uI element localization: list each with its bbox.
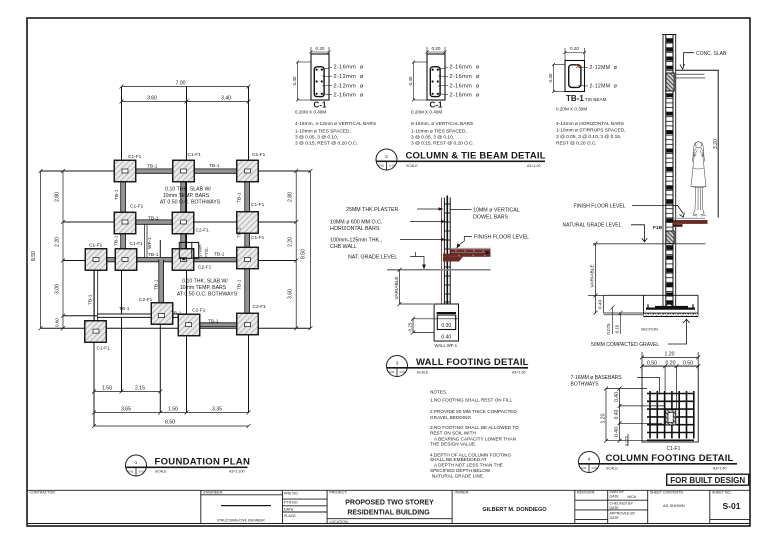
svg-text:S-01: S-01: [378, 164, 384, 168]
svg-text:S-01: S-01: [723, 501, 741, 511]
svg-text:SECTION: SECTION: [641, 328, 658, 332]
svg-text:COLUMN FOOTING DETAIL: COLUMN FOOTING DETAIL: [606, 453, 734, 464]
svg-text:TB-1: TB-1: [119, 306, 130, 312]
svg-text:BOTHWAYS: BOTHWAYS: [571, 382, 600, 388]
svg-text:4-12mm ø HORIZONTAL BARS: 4-12mm ø HORIZONTAL BARS: [556, 121, 624, 127]
svg-text:TB-1: TB-1: [114, 235, 120, 246]
hatched junction blocks: [666, 73, 674, 91]
svg-text:TB-1: TB-1: [214, 252, 225, 258]
svg-text:1.50: 1.50: [102, 386, 112, 392]
svg-text:1: 1: [135, 460, 138, 465]
svg-text:4: 4: [588, 457, 591, 462]
svg-text:0.40: 0.40: [614, 392, 620, 402]
svg-text:C1-F1: C1-F1: [252, 152, 266, 158]
left leader texts: [330, 207, 398, 261]
column ladder: [662, 35, 676, 307]
svg-text:2-12MM ø: 2-12MM ø: [590, 65, 618, 71]
svg-text:2-16mm ø: 2-16mm ø: [450, 74, 480, 80]
svg-text:DATE: DATE: [284, 507, 294, 511]
svg-text:2-16mm ø: 2-16mm ø: [450, 92, 480, 98]
footing section: [604, 295, 699, 316]
svg-text:CHB WALL: CHB WALL: [330, 244, 357, 250]
svg-text:2-16mm ø: 2-16mm ø: [450, 83, 480, 89]
svg-text:FINISH FLOOR LEVEL: FINISH FLOOR LEVEL: [474, 235, 529, 241]
svg-text:8.50: 8.50: [301, 249, 307, 259]
svg-text:SCALE: SCALE: [155, 470, 167, 474]
svg-text:2.20: 2.20: [55, 237, 61, 247]
svg-text:0.075: 0.075: [606, 323, 611, 335]
svg-text:DOWEL BARS: DOWEL BARS: [473, 215, 509, 221]
svg-text:2-12MM ø: 2-12MM ø: [590, 84, 618, 90]
top dims: [640, 352, 700, 368]
svg-text:S-01: S-01: [389, 164, 395, 168]
dwg/checked/approved rows: [608, 499, 648, 501]
svg-text:TB-1: TB-1: [566, 94, 584, 103]
svg-text:2-16mm ø: 2-16mm ø: [334, 92, 364, 98]
svg-text:WALL WF-1: WALL WF-1: [435, 343, 458, 348]
thin grid lines: [41, 87, 311, 427]
svg-text:0.40: 0.40: [598, 300, 604, 310]
svg-text:AT 0.50 O.C. BOTHWAYS: AT 0.50 O.C. BOTHWAYS: [177, 292, 238, 298]
svg-text:VARIABLE: VARIABLE: [394, 276, 400, 299]
svg-text:GILBERT M. DONDIEGO: GILBERT M. DONDIEGO: [482, 507, 547, 513]
svg-text:SCALE: SCALE: [606, 467, 618, 471]
svg-text:TB-1: TB-1: [237, 227, 243, 238]
svg-text:A3=1:20: A3=1:20: [527, 164, 541, 168]
svg-text:TB-1: TB-1: [88, 294, 94, 305]
grid horizontals: [41, 170, 311, 172]
svg-text:3 @ 0.05, 3 @ 0.10, 3 @ 0.15,: 3 @ 0.05, 3 @ 0.10, 3 @ 0.15,: [556, 134, 621, 140]
center column: [665, 410, 676, 426]
svg-text:0.50: 0.50: [683, 360, 693, 366]
svg-text:TB-1: TB-1: [237, 279, 243, 290]
svg-text:C2-F1: C2-F1: [192, 307, 206, 313]
svg-text:3 @ 0.15, REST @ 0.20 O.C.: 3 @ 0.15, REST @ 0.20 O.C.: [411, 141, 474, 147]
svg-text:10MM ø 600 MM O.C.: 10MM ø 600 MM O.C.: [330, 220, 382, 226]
slab note upper: [160, 187, 221, 206]
svg-text:0.40: 0.40: [408, 76, 413, 85]
svg-text:PRE NO.: PRE NO.: [284, 491, 299, 495]
svg-text:PROJECT:: PROJECT:: [330, 490, 348, 494]
svg-text:3.40: 3.40: [221, 96, 231, 102]
gravel band: [644, 313, 699, 317]
svg-text:7.00: 7.00: [175, 81, 185, 87]
svg-text:25MM THK.PLASTER: 25MM THK.PLASTER: [346, 207, 398, 213]
svg-text:0.075: 0.075: [624, 435, 629, 446]
ladder ticks: [444, 204, 451, 302]
svg-text:C2-F1: C2-F1: [253, 304, 267, 310]
engineer signature line: [221, 505, 271, 507]
svg-text:TB-1: TB-1: [171, 311, 182, 317]
svg-text:A BEARING CAPACITY LOWER THAN: A BEARING CAPACITY LOWER THAN: [434, 436, 516, 441]
title: [579, 452, 738, 473]
svg-text:STRUCTURAL/CIVIL ENGINEER: STRUCTURAL/CIVIL ENGINEER: [217, 519, 265, 523]
svg-text:AS SHOWN: AS SHOWN: [663, 503, 685, 508]
svg-text:100mm-125mm THK.,: 100mm-125mm THK.,: [330, 238, 382, 244]
WF-1 double line: [144, 224, 146, 257]
svg-text:0.20: 0.20: [665, 360, 675, 366]
svg-text:8.50: 8.50: [31, 251, 37, 261]
svg-text:0.10: 0.10: [615, 324, 620, 333]
columns (hatched squares): [85, 160, 259, 342]
person figure: [691, 142, 706, 216]
dims: [296, 47, 331, 102]
svg-text:2.15: 2.15: [135, 386, 145, 392]
svg-text:PROPOSED TWO STOREY: PROPOSED TWO STOREY: [345, 500, 434, 507]
svg-text:A DEPTH NOT LESS THAN THE: A DEPTH NOT LESS THAN THE: [434, 462, 503, 467]
svg-text:C-1: C-1: [430, 101, 443, 110]
svg-text:2-12mm ø: 2-12mm ø: [334, 83, 364, 89]
dimensions right: [294, 169, 312, 330]
svg-text:FINISH FLOOR LEVEL: FINISH FLOOR LEVEL: [574, 203, 626, 209]
tie beam section TB-1: [548, 46, 625, 147]
svg-text:A3=1:30: A3=1:30: [512, 371, 526, 375]
svg-text:WALL FOOTING DETAIL: WALL FOOTING DETAIL: [416, 357, 529, 368]
right leader texts: [473, 208, 529, 241]
svg-text:0.20M X 0.40M: 0.20M X 0.40M: [295, 110, 326, 115]
svg-text:STAIR: STAIR: [198, 244, 204, 258]
svg-text:C2-F1: C2-F1: [139, 297, 153, 303]
title: [387, 356, 529, 377]
svg-text:WF-1: WF-1: [147, 237, 153, 249]
svg-text:0.40: 0.40: [292, 76, 297, 85]
floor slab bands: [443, 248, 491, 261]
svg-text:3 @ 0.15, REST @ 0.20 O.C.: 3 @ 0.15, REST @ 0.20 O.C.: [295, 141, 358, 147]
svg-text:0.20: 0.20: [432, 46, 441, 51]
svg-text:3.00: 3.00: [55, 284, 61, 294]
svg-text:HORIZONTAL BARS: HORIZONTAL BARS: [330, 226, 380, 232]
svg-text:3 @ 0.05, 3 @ 0.10,: 3 @ 0.05, 3 @ 0.10,: [411, 135, 454, 141]
svg-text:3.35: 3.35: [212, 407, 222, 413]
svg-text:REVISION:: REVISION:: [577, 490, 595, 494]
svg-text:2.80: 2.80: [55, 192, 61, 202]
svg-text:10mm TEMP. BARS: 10mm TEMP. BARS: [180, 285, 227, 291]
svg-text:GRAVEL BEDDING: GRAVEL BEDDING: [430, 415, 472, 420]
svg-text:NICA: NICA: [628, 495, 637, 499]
svg-text:A3=1:40: A3=1:40: [713, 467, 727, 471]
column / beam labels: [89, 152, 266, 352]
stair footing: [179, 242, 198, 260]
svg-text:S-01: S-01: [139, 470, 145, 474]
0.25 dim: [411, 317, 434, 335]
svg-text:S-01: S-01: [581, 466, 587, 470]
svg-text:8.50: 8.50: [165, 420, 175, 426]
svg-text:C2-F1: C2-F1: [198, 265, 212, 271]
vertical tie beams: [94, 171, 249, 332]
svg-text:CONTRACTOR:: CONTRACTOR:: [30, 490, 56, 494]
svg-text:VARIABLE: VARIABLE: [590, 264, 596, 287]
svg-text:TB-1: TB-1: [148, 252, 159, 258]
svg-text:A3=1:100: A3=1:100: [229, 470, 245, 474]
svg-text:2: 2: [385, 154, 388, 159]
svg-text:TB-1: TB-1: [148, 216, 159, 222]
svg-text:C1-F1: C1-F1: [188, 152, 202, 158]
svg-text:1.NO FOOTING SHALL REST ON FIL: 1.NO FOOTING SHALL REST ON FILL: [430, 398, 513, 403]
svg-text:NOTES.: NOTES.: [430, 390, 447, 395]
svg-text:0.10 THK. SLAB W/: 0.10 THK. SLAB W/: [165, 187, 211, 193]
svg-text:C1-F1: C1-F1: [130, 241, 144, 247]
svg-text:TB-1: TB-1: [208, 319, 219, 325]
svg-text:2.PROVIDE 50 MM THICK COMPACTE: 2.PROVIDE 50 MM THICK COMPACTED: [430, 409, 517, 414]
svg-text:C1-F1: C1-F1: [667, 446, 681, 452]
svg-text:TIE BEAM: TIE BEAM: [585, 97, 607, 102]
column section C-1 #1: [292, 46, 376, 147]
svg-text:2-12mm ø: 2-12mm ø: [334, 74, 364, 80]
svg-text:S-01: S-01: [389, 370, 395, 374]
svg-text:2.80: 2.80: [287, 192, 293, 202]
svg-text:8-16mm, ø VERTICAL BARS: 8-16mm, ø VERTICAL BARS: [411, 121, 473, 127]
row 3: [85, 249, 107, 271]
column section C-1 #2: [408, 46, 480, 147]
svg-text:50MM COMPACTED GRAVEL: 50MM COMPACTED GRAVEL: [591, 342, 659, 348]
svg-text:2-16mm ø: 2-16mm ø: [450, 65, 480, 71]
svg-text:TB-1: TB-1: [114, 189, 120, 200]
svg-text:SPECIFIED DEPTH BELOW: SPECIFIED DEPTH BELOW: [430, 468, 491, 473]
svg-text:C1-F1: C1-F1: [251, 235, 265, 241]
svg-text:10mm TEMP. BARS: 10mm TEMP. BARS: [163, 193, 210, 199]
svg-text:0.10 THK. SLAB W/: 0.10 THK. SLAB W/: [182, 279, 228, 285]
svg-text:DATE: DATE: [610, 494, 620, 498]
outer rect: [642, 366, 698, 442]
svg-text:0.20: 0.20: [316, 46, 325, 51]
svg-text:0.40: 0.40: [614, 409, 620, 419]
VARIABLE + 0.40 dims: [588, 242, 604, 315]
svg-text:S-01: S-01: [128, 470, 134, 474]
svg-text:3.20: 3.20: [713, 139, 719, 149]
footing rebar pad: [646, 308, 695, 310]
svg-text:OWNER:: OWNER:: [455, 490, 470, 494]
floor bands: [674, 217, 706, 219]
svg-text:3 @ 0.05, 3 @ 0.10,: 3 @ 0.05, 3 @ 0.10,: [295, 135, 338, 141]
svg-text:4-16mm, 4-12mm ø VERTICAL BARS: 4-16mm, 4-12mm ø VERTICAL BARS: [295, 121, 376, 127]
svg-text:2-16mm ø: 2-16mm ø: [334, 65, 364, 71]
svg-text:S-01: S-01: [400, 370, 406, 374]
svg-text:0.40: 0.40: [614, 427, 620, 437]
svg-text:3.60: 3.60: [147, 96, 157, 102]
svg-text:0.60: 0.60: [55, 318, 60, 327]
svg-text:1.20: 1.20: [664, 352, 674, 358]
svg-text:1.20: 1.20: [601, 413, 607, 423]
svg-text:SHEET CONTENTS:: SHEET CONTENTS:: [650, 490, 684, 494]
svg-text:PLACE: PLACE: [284, 514, 296, 518]
svg-text:10MM ø VERTICAL: 10MM ø VERTICAL: [473, 208, 520, 214]
svg-text:S-01: S-01: [592, 466, 598, 470]
svg-text:0.20M X 0.40M: 0.20M X 0.40M: [411, 110, 442, 115]
svg-text:ENGINEER:: ENGINEER:: [204, 490, 224, 494]
svg-text:RESIDENTIAL BUILDING: RESIDENTIAL BUILDING: [347, 509, 430, 516]
svg-text:REST @ 0.20 O.C.: REST @ 0.20 O.C.: [556, 141, 597, 147]
svg-text:3.NO FOOTING SHALL BE ALLOWED: 3.NO FOOTING SHALL BE ALLOWED TO: [430, 425, 519, 430]
svg-text:REST ON SOIL WITH: REST ON SOIL WITH: [430, 431, 476, 436]
svg-text:3.65: 3.65: [121, 407, 131, 413]
svg-text:TB-1: TB-1: [209, 163, 220, 169]
svg-text:7-16MM ø BASEBARS: 7-16MM ø BASEBARS: [571, 375, 623, 381]
svg-text:TB-1: TB-1: [154, 279, 160, 290]
rotated beam labels: [88, 189, 243, 305]
svg-text:1-10mm ø TIES SPACED,: 1-10mm ø TIES SPACED,: [295, 129, 351, 135]
svg-text:C1-F1: C1-F1: [128, 154, 142, 160]
svg-text:CONC. SLAB: CONC. SLAB: [696, 51, 727, 57]
wall verticals: [442, 196, 451, 314]
natural grade line: [387, 269, 491, 271]
footing: [413, 304, 459, 348]
row 2: [114, 212, 136, 234]
slab note lower: [177, 279, 238, 298]
title block frame: [27, 489, 750, 491]
small joint boxes: [93, 169, 251, 333]
svg-text:NAT. GRADE LEVEL: NAT. GRADE LEVEL: [348, 255, 397, 261]
svg-text:C1-F1: C1-F1: [97, 346, 111, 352]
svg-text:0.30: 0.30: [441, 323, 451, 329]
row 4: [151, 303, 173, 325]
svg-text:C1-F1: C1-F1: [251, 202, 265, 208]
svg-text:COLUMN & TIE BEAM DETAIL: COLUMN & TIE BEAM DETAIL: [406, 151, 546, 162]
svg-text:F1B: F1B: [653, 225, 663, 231]
variable dim: [398, 268, 434, 306]
room outline: [675, 70, 718, 217]
svg-text:FOUNDATION PLAN: FOUNDATION PLAN: [155, 457, 251, 468]
svg-text:TB-1: TB-1: [237, 192, 243, 203]
svg-text:C-1: C-1: [314, 101, 327, 110]
svg-text:DATE: DATE: [610, 506, 620, 510]
svg-text:2.20: 2.20: [287, 237, 293, 247]
svg-text:THE DESIGN VALUE.: THE DESIGN VALUE.: [430, 442, 476, 447]
rebar grid: [647, 391, 694, 440]
leaders: [321, 68, 332, 95]
small row lines: PRE/PTR/DATE/PLACE cell: [283, 498, 328, 500]
svg-text:PTR NO.: PTR NO.: [284, 501, 299, 505]
foundation plan title: [126, 455, 251, 476]
dimensions bottom: [92, 390, 251, 429]
svg-text:SHEET NO.:: SHEET NO.:: [712, 490, 732, 494]
0.075 / 0.10 dims: [611, 305, 623, 334]
svg-text:NATURAL GRADE LEVEL: NATURAL GRADE LEVEL: [563, 223, 622, 229]
title: [376, 149, 546, 170]
svg-text:0.20: 0.20: [570, 46, 579, 51]
svg-text:1.50: 1.50: [168, 407, 178, 413]
svg-text:1-10mm ø STIRRUPS SPACED,: 1-10mm ø STIRRUPS SPACED,: [556, 128, 625, 134]
svg-text:0.30: 0.30: [548, 73, 553, 82]
svg-text:1-10mm ø TIES SPACED,: 1-10mm ø TIES SPACED,: [411, 129, 467, 135]
svg-text:C2-F1: C2-F1: [196, 228, 210, 234]
svg-text:DATE: DATE: [610, 516, 620, 520]
svg-text:FTG.: FTG.: [204, 247, 210, 258]
svg-text:SCALE: SCALE: [406, 164, 418, 168]
svg-text:3: 3: [396, 361, 399, 366]
horizontal tie beams (gray bands): [96, 169, 248, 327]
svg-text:SCALE: SCALE: [417, 371, 429, 375]
svg-text:0.25: 0.25: [408, 322, 413, 331]
svg-text:0.50: 0.50: [647, 360, 657, 366]
location row line: [327, 518, 452, 520]
svg-text:0.20M X 0.30M: 0.20M X 0.30M: [556, 107, 587, 112]
row 1: [114, 160, 136, 182]
svg-text:3.60: 3.60: [287, 289, 293, 299]
dimensions left: [39, 169, 66, 330]
grid verticals: [121, 87, 123, 392]
svg-text:LOCATION:: LOCATION:: [330, 520, 349, 524]
svg-text:AT 0.50 O.C. BOTHWAYS: AT 0.50 O.C. BOTHWAYS: [160, 200, 221, 206]
svg-text:0.40: 0.40: [441, 335, 451, 341]
svg-text:TB-1: TB-1: [147, 163, 158, 169]
dimensions top: [120, 85, 251, 104]
svg-text:FOR BUILT DESIGN: FOR BUILT DESIGN: [670, 476, 745, 485]
left dims: [604, 387, 666, 447]
svg-text:C1-F1: C1-F1: [130, 204, 144, 210]
svg-text:C1-F1: C1-F1: [89, 243, 103, 249]
svg-text:NATURAL GRADE LINE.: NATURAL GRADE LINE.: [432, 473, 484, 478]
notes: [430, 390, 519, 479]
row 5 bottom-left: [85, 321, 107, 343]
svg-text:SHALL BE EMBEDDED AT: SHALL BE EMBEDDED AT: [430, 457, 487, 462]
sheet no bottom sliver: [710, 519, 750, 521]
FOR BUILT DESIGN box: [667, 474, 749, 485]
revision rows: [575, 499, 608, 501]
svg-text:DWG BY: DWG BY: [610, 490, 625, 494]
